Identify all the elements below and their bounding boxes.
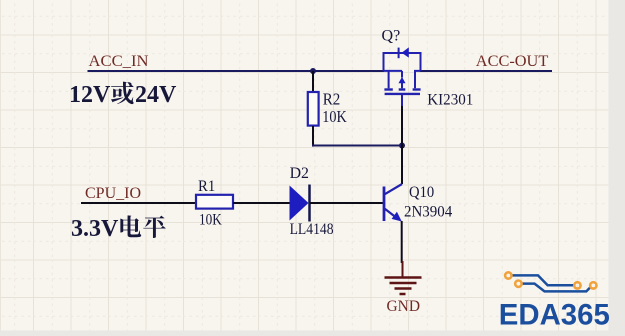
logo trace upper (512, 275, 575, 285)
wire: Q10 emitter to GND (401, 221, 403, 263)
gate pin (401, 94, 403, 106)
svg-text:10K: 10K (199, 212, 222, 229)
diode D2 LL4148 (290, 185, 310, 222)
svg-text:R1: R1 (198, 178, 215, 195)
svg-text:LL4148: LL4148 (290, 221, 334, 238)
svg-text:ACC-OUT: ACC-OUT (476, 53, 549, 70)
logo pad 2 (515, 281, 521, 287)
body diode cathode bar (398, 48, 400, 59)
source contact bar (384, 88, 392, 90)
wire: gate net vertical (gate to Q10 collector) (401, 104, 403, 184)
svg-text:ACC_IN: ACC_IN (89, 53, 149, 70)
svg-text:EDA365: EDA365 (499, 298, 610, 331)
source contact leg (388, 71, 390, 88)
mosfet Q? KI2301 (P-channel) (384, 47, 421, 106)
wire: R1 to D2 (233, 202, 290, 204)
svg-text:GND: GND (387, 298, 421, 315)
substrate pin upper (401, 71, 403, 78)
ground bar 4 (400, 293, 406, 296)
svg-text:R2: R2 (323, 90, 341, 109)
annotation 3.3V level (71, 215, 166, 241)
ground bar 1 (385, 276, 422, 279)
source-side top run (384, 70, 403, 72)
annotation 12V or 24V (69, 82, 177, 108)
ground stem (402, 261, 404, 277)
svg-text:3.3V: 3.3V (71, 216, 119, 242)
wire: D2 to Q10 base (310, 202, 383, 204)
transistor Q10 (NPN 2N3904) (384, 184, 402, 222)
wire: rail from MOSFET drain to ACC-OUT (420, 70, 552, 72)
bottom gray margin strip (0, 331, 625, 336)
svg-text:2N3904: 2N3904 (404, 204, 452, 221)
drain contact bar (413, 88, 421, 90)
logo trace lower (522, 284, 591, 292)
ground bar 3 (395, 287, 412, 290)
svg-text:Q10: Q10 (409, 184, 434, 201)
diode cathode bar (308, 185, 311, 222)
svg-text:Q?: Q? (382, 27, 401, 44)
emitter arrow head (392, 212, 402, 222)
ground symbol (385, 261, 422, 294)
collector diagonal (385, 184, 402, 194)
svg-text:KI2301: KI2301 (427, 92, 473, 109)
resistor R1 (196, 195, 233, 209)
substrate contact bar (399, 88, 406, 90)
node: junction gate net / collector (399, 143, 405, 149)
emitter diagonal (385, 209, 396, 217)
logo pad 1 (505, 272, 511, 278)
source lead bracket (384, 53, 421, 71)
gate bar (385, 93, 420, 95)
base bar (383, 187, 386, 222)
logo pad 4 (590, 282, 596, 288)
svg-text:CPU_IO: CPU_IO (85, 185, 141, 202)
svg-text:10K: 10K (322, 107, 347, 126)
drain contact leg (415, 71, 421, 88)
ground bar 2 (390, 282, 417, 285)
substrate arrow head (399, 77, 406, 83)
wire: R2 bottom to gate net (312, 145, 403, 147)
right gray margin strip (609, 0, 625, 336)
logo pad 3 (574, 282, 580, 288)
node: junction of R2 with ACC rail (310, 68, 316, 74)
wire: R2 top stub (312, 71, 314, 92)
svg-text:D2: D2 (290, 165, 309, 182)
body diode triangle (402, 47, 409, 57)
wire: R2 bottom stub (312, 126, 314, 147)
svg-text:24V: 24V (135, 82, 177, 108)
wire: CPU_IO to R1 (81, 202, 197, 204)
faint screenshot left border (0, 0, 2, 336)
EDA365 logo (499, 272, 610, 331)
svg-text:12V: 12V (69, 82, 111, 108)
diode triangle (290, 186, 309, 221)
wire: ACC_IN rail (left segment) (88, 70, 385, 72)
substrate arrow shaft (401, 83, 403, 88)
resistor R2 (308, 92, 319, 126)
